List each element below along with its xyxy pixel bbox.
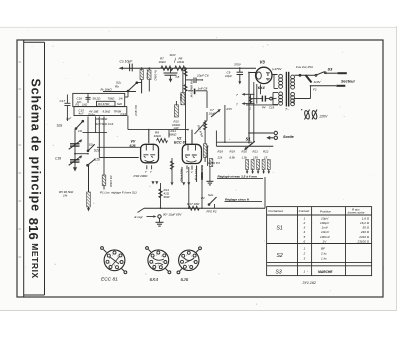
svg-text:1: 1 — [304, 217, 306, 221]
svg-text:S2b: S2b — [117, 102, 123, 106]
svg-text:S2: S2 — [277, 253, 283, 259]
svg-text:ECC 81: ECC 81 — [174, 141, 187, 145]
svg-text:E régl: E régl — [135, 215, 143, 219]
svg-text:10µV: 10µV — [321, 217, 329, 221]
svg-text:110V: 110V — [314, 80, 322, 84]
svg-text:6: 6 — [304, 239, 306, 243]
svg-text:1 kc: 1 kc — [321, 257, 327, 261]
svg-text:5: 5 — [110, 264, 111, 266]
svg-text:10µF: 10µF — [225, 74, 232, 78]
svg-text:S2e: S2e — [208, 193, 214, 197]
svg-text:P4: P4 — [262, 105, 266, 109]
svg-text:7: 7 — [236, 102, 238, 106]
svg-text:4: 4 — [114, 265, 115, 267]
svg-text:MARCHE: MARCHE — [318, 270, 333, 274]
svg-text:2 kc: 2 kc — [320, 252, 327, 256]
svg-text:22k: 22k — [217, 156, 223, 160]
svg-text:R22: R22 — [263, 150, 269, 154]
svg-text:100mV: 100mV — [320, 235, 331, 239]
svg-text:ECC 81: ECC 81 — [101, 277, 118, 283]
svg-text:R21: R21 — [253, 150, 259, 154]
svg-text:1: 1 — [304, 246, 306, 250]
svg-text:3: 3 — [304, 226, 306, 230]
svg-text:10kΩ: 10kΩ — [154, 134, 162, 138]
svg-text:16kΩ: 16kΩ — [159, 60, 167, 64]
svg-text:50 Ω: 50 Ω — [363, 226, 370, 230]
svg-text:10µF C6: 10µF C6 — [197, 74, 209, 78]
svg-text:240 Ω: 240 Ω — [360, 230, 370, 234]
svg-text:3Y1.162: 3Y1.162 — [303, 281, 316, 285]
svg-text:4n7: 4n7 — [79, 112, 84, 116]
svg-text:C18: C18 — [55, 157, 61, 161]
svg-text:816: 816 — [26, 218, 41, 240]
svg-text:1: 1 — [191, 170, 193, 174]
svg-text:Rv 16kΩ: Rv 16kΩ — [154, 70, 158, 80]
svg-text:P1 Lim. réglage F (vers S1): P1 Lim. réglage F (vers S1) — [100, 191, 137, 195]
svg-text:10kΩ: 10kΩ — [177, 60, 185, 64]
svg-text:2: 2 — [303, 221, 306, 225]
svg-text:1: 1 — [186, 255, 187, 257]
svg-text:5: 5 — [184, 264, 185, 266]
svg-text:7: 7 — [114, 261, 115, 263]
svg-text:Contact: Contact — [299, 209, 310, 213]
svg-text:100µV: 100µV — [320, 221, 330, 225]
svg-text:F2: F2 — [313, 88, 317, 92]
svg-text:R1: R1 — [76, 103, 80, 107]
svg-text:3: 3 — [162, 262, 163, 264]
svg-text:2: 2 — [249, 106, 252, 110]
svg-text:1: 1 — [156, 255, 157, 257]
svg-text:2: 2 — [191, 256, 192, 258]
svg-text:P1R 200Ω: P1R 200Ω — [134, 174, 149, 178]
svg-text:56,2Ω: 56,2Ω — [93, 96, 102, 100]
svg-text:Secteur: Secteur — [341, 80, 355, 84]
svg-text:S2a: S2a — [57, 124, 63, 128]
svg-text:1mV: 1mV — [322, 226, 329, 230]
svg-text:2: 2 — [303, 252, 306, 256]
svg-text:R18: R18 — [218, 150, 224, 154]
svg-text:220V: 220V — [319, 115, 329, 119]
svg-text:15: 15 — [264, 156, 268, 160]
svg-text:S2c: S2c — [89, 142, 95, 146]
svg-text:C18: C18 — [269, 105, 275, 109]
svg-text:96W: 96W — [164, 195, 170, 199]
svg-text:4: 4 — [188, 265, 189, 267]
svg-text:2: 2 — [161, 256, 162, 258]
svg-text:56kΩ: 56kΩ — [179, 94, 183, 102]
svg-text:6: 6 — [109, 258, 110, 260]
svg-text:R4 10kΩ: R4 10kΩ — [109, 176, 113, 188]
svg-text:R20: R20 — [242, 150, 248, 154]
svg-text:5: 5 — [304, 235, 306, 239]
svg-text:Rr 16kΩ: Rr 16kΩ — [101, 87, 113, 91]
svg-text:S16a: S16a — [88, 113, 95, 117]
svg-text:23100 Ω: 23100 Ω — [357, 239, 370, 243]
svg-text:R17 18Ω: R17 18Ω — [187, 202, 200, 206]
svg-text:3: 3 — [119, 262, 120, 264]
svg-text:6X4: 6X4 — [150, 277, 159, 283]
svg-text:1: 1 — [112, 255, 113, 257]
svg-text:C13: C13 — [121, 112, 127, 116]
svg-text:2: 2 — [117, 256, 118, 258]
svg-text:Fus 2x1,25A: Fus 2x1,25A — [296, 65, 313, 69]
svg-text:C12 0,1µ: C12 0,1µ — [194, 169, 198, 181]
svg-text:7: 7 — [236, 93, 238, 97]
svg-text:Réglage niveau 3,5 à 4 mm: Réglage niveau 3,5 à 4 mm — [218, 174, 258, 178]
svg-text:S1: S1 — [246, 137, 252, 142]
svg-text:1,6 Ω: 1,6 Ω — [362, 217, 370, 221]
svg-text:S2d: S2d — [94, 148, 100, 152]
svg-text:68kΩ: 68kΩ — [169, 133, 177, 137]
svg-text:370V: 370V — [234, 63, 242, 67]
svg-text:6: 6 — [153, 258, 154, 260]
svg-text:Rm 3mV: Rm 3mV — [134, 105, 138, 117]
svg-text:150: 150 — [253, 156, 258, 160]
svg-text:P2: P2 — [201, 196, 205, 200]
svg-text:S3: S3 — [276, 270, 282, 276]
svg-text:C17: C17 — [60, 99, 66, 103]
svg-text:Rb: Rb — [115, 84, 119, 88]
svg-text:(+370V: (+370V — [272, 67, 282, 71]
svg-text:S3: S3 — [328, 67, 334, 72]
svg-text:R15: R15 — [227, 107, 233, 111]
svg-text:7: 7 — [186, 170, 188, 174]
svg-text:R6 96kΩ: R6 96kΩ — [96, 117, 109, 121]
svg-text:bornes sortie: bornes sortie — [348, 211, 365, 215]
svg-text:6X4: 6X4 — [258, 86, 266, 90]
svg-text:1: 1 — [304, 270, 306, 274]
svg-text:10mV: 10mV — [321, 230, 330, 234]
svg-text:R19: R19 — [230, 150, 236, 154]
svg-text:Sortie: Sortie — [283, 135, 294, 139]
svg-text:90° 10µF 65V: 90° 10µF 65V — [163, 213, 182, 217]
svg-text:3: 3 — [304, 257, 306, 261]
svg-text:S1: S1 — [277, 226, 283, 232]
svg-text:FP2 P2: FP2 P2 — [207, 210, 217, 214]
svg-text:240Ω P3: 240Ω P3 — [207, 161, 220, 165]
svg-text:6: 6 — [183, 258, 184, 260]
svg-text:R9 68kΩ ½W: R9 68kΩ ½W — [189, 81, 193, 98]
svg-text:16,2 Ω: 16,2 Ω — [360, 221, 370, 225]
svg-text:1kΩ: 1kΩ — [82, 103, 88, 107]
svg-text:1%: 1% — [119, 96, 124, 100]
svg-text:5: 5 — [153, 264, 154, 266]
svg-text:7: 7 — [150, 170, 152, 174]
svg-text:S2b: S2b — [94, 157, 100, 161]
svg-text:1%: 1% — [63, 194, 68, 198]
svg-text:1,5k: 1,5k — [242, 156, 248, 160]
svg-text:Réglage sinus H: Réglage sinus H — [225, 198, 250, 202]
svg-text:6,8k: 6,8k — [230, 156, 236, 160]
svg-text:Schéma de principe: Schéma de principe — [29, 79, 43, 212]
svg-text:70kΩ: 70kΩ — [108, 96, 116, 100]
svg-text:2310 Ω: 2310 Ω — [358, 235, 370, 239]
svg-text:METRIX: METRIX — [30, 243, 40, 278]
svg-text:V3: V3 — [260, 60, 266, 65]
svg-text:6J6: 6J6 — [130, 144, 137, 148]
svg-text:9,5kΩ: 9,5kΩ — [103, 110, 111, 114]
svg-text:310V: 310V — [170, 53, 176, 57]
svg-text:Cs 10µF: Cs 10µF — [120, 60, 134, 64]
svg-text:3: 3 — [193, 262, 194, 264]
svg-text:1µF: 1µF — [66, 117, 71, 121]
svg-text:C8: C8 — [176, 75, 180, 79]
svg-text:4: 4 — [304, 230, 306, 234]
svg-text:1nF C8: 1nF C8 — [198, 86, 208, 90]
svg-text:R3 47kΩ: R3 47kΩ — [98, 102, 110, 106]
svg-text:6J6: 6J6 — [181, 277, 189, 283]
svg-text:4: 4 — [158, 265, 159, 267]
svg-text:Contacteur: Contacteur — [268, 209, 284, 213]
svg-text:Position: Position — [320, 209, 331, 213]
svg-text:R16 47kΩ: R16 47kΩ — [179, 169, 183, 182]
